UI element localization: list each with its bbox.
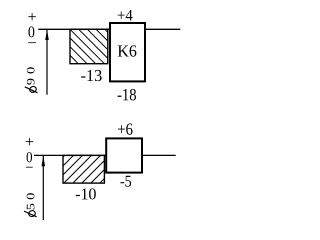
zero label (bottom diagram): [27, 152, 32, 162]
plus sign (top diagram): [28, 13, 35, 20]
value label -5 (bottom diagram): [120, 176, 131, 187]
value label -10 (bottom diagram): [76, 188, 96, 199]
label phi50 (bottom diagram): [24, 193, 37, 217]
value label +4 (top diagram): [118, 10, 133, 20]
label phi90 (top diagram): [25, 67, 38, 93]
minus sign (top diagram): [28, 41, 36, 44]
value label -18 (top diagram): [118, 89, 136, 101]
dimension arrow phi50 (bottom diagram): [42, 156, 46, 220]
dimension arrow phi90 (top diagram): [45, 30, 49, 95]
zero line (top diagram): [38, 28, 180, 30]
zero line (bottom diagram): [34, 154, 176, 156]
minus sign (bottom diagram): [26, 166, 33, 169]
shaft tolerance zone, hatched (bottom diagram): [63, 155, 104, 183]
designation K6 (top diagram): [118, 45, 137, 56]
value label -13 (top diagram): [81, 70, 101, 81]
shaft tolerance zone, hatched (top diagram): [70, 29, 108, 63]
plus sign (bottom diagram): [26, 138, 33, 145]
value label +6 (bottom diagram): [118, 123, 133, 134]
zero label (top diagram): [28, 26, 34, 37]
hole tolerance zone (bottom diagram): [106, 138, 142, 172]
hole tolerance zone K6 (top diagram): [110, 23, 145, 81]
